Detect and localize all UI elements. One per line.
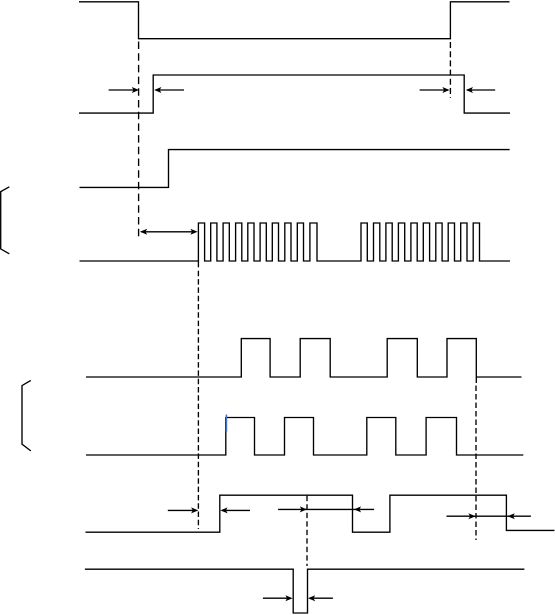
bracket B2 left group marker: [22, 380, 31, 451]
dashed timing line D5 at row1 rising edge x=450.4: [449, 42, 451, 98]
waveform row4 clock burst train: [80, 223, 511, 261]
setup-time arrow left pair shaft (points right at D1): [109, 89, 137, 91]
bracket B1 left group marker: [1, 187, 10, 254]
waveform row3 status flag (low-high): [80, 150, 510, 188]
solid stub below burst first edge: [197, 261, 199, 267]
row7 delay arrow set1 shaft (points right at D2): [168, 509, 197, 511]
dashed timing line D1 at first falling edge x=138.6: [138, 42, 140, 239]
waveform row6 encoder phase B: [86, 418, 523, 456]
row8 pulse-width arrow shaft (points right at falling edge): [263, 597, 291, 599]
waveform row5 encoder phase A: [86, 339, 522, 377]
arrowhead left-pointing tip at row2 rising edge: [154, 87, 161, 93]
dashed timing line D2 at burst start x=198.4: [197, 271, 199, 529]
waveform row2 enable (low-high-low): [79, 75, 510, 113]
arrowhead right-pointing tip at D3: [300, 506, 307, 512]
dashed timing line D4 at row5 last falling edge x=476: [475, 386, 477, 541]
arrowhead left-pointing tip at D1: [140, 229, 147, 235]
arrowhead right-pointing tip at D4: [468, 513, 475, 519]
waveform row8 strobe with narrow low pulse: [85, 569, 525, 613]
setup-time arrow left pair shaft (points left at rising edge): [156, 89, 185, 91]
dashed timing line D3 at x=307: [306, 496, 308, 566]
arrowhead right-pointing tip at D2: [191, 507, 198, 513]
arrowhead right-pointing tip at D5: [442, 87, 449, 93]
row7 width arrow set2 through shaft: [278, 508, 374, 510]
delay dimension arrow D1-to-burst shaft: [141, 231, 196, 233]
blue cursor artifact on row6 first rising edge: [226, 415, 228, 432]
row8 pulse-width arrow shaft (points left at rising edge): [309, 597, 333, 599]
arrowhead right-pointing tip at D1: [132, 87, 139, 93]
arrowhead right-pointing tip at row8 falling edge: [285, 595, 292, 601]
hold-time arrow right pair shaft (points right at D5): [420, 89, 448, 91]
waveform row7 gate output: [86, 495, 555, 532]
arrowhead left-pointing tip at row8 rising edge: [308, 595, 315, 601]
row7 delay arrow set1 shaft (points left at rising edge): [222, 509, 250, 511]
row7 width arrow set3 through shaft: [447, 515, 531, 517]
arrowhead left-pointing tip at row7 rising edge: [220, 507, 227, 513]
waveform row1 chip-select (high-low-high): [79, 2, 510, 39]
arrowhead left-pointing tip at row7 falling edge: [354, 506, 361, 512]
arrowhead right-pointing tip at burst start: [190, 229, 197, 235]
hold-time arrow right pair shaft (points left at falling edge): [467, 89, 495, 91]
solid stub below row5 last falling edge: [475, 377, 477, 383]
arrowhead left-pointing tip at row2 falling edge: [466, 87, 473, 93]
arrowhead left-pointing tip at row7 last falling edge: [508, 513, 515, 519]
